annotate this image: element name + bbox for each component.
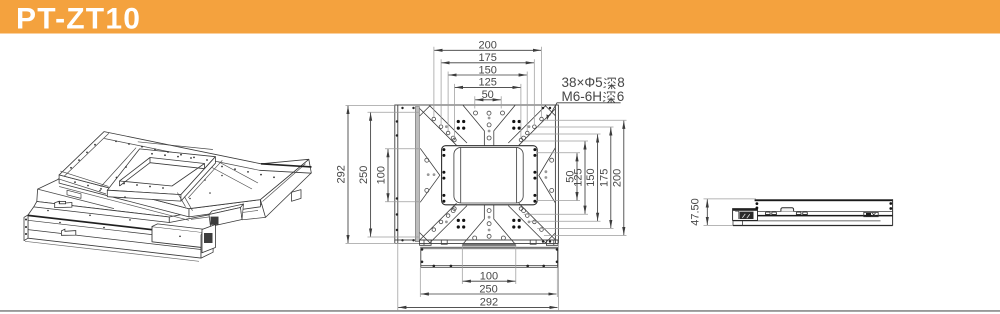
svg-text:200: 200 xyxy=(611,169,623,187)
NW diagonal rib xyxy=(420,106,467,146)
plate lower bottom edge xyxy=(395,242,559,244)
east triangle holes xyxy=(550,158,554,192)
iso bottom stage left cap xyxy=(24,215,28,241)
svg-text:100: 100 xyxy=(480,271,498,283)
iso bottom stage step block xyxy=(152,227,202,248)
svg-text:175: 175 xyxy=(479,52,497,64)
west triangle rib xyxy=(420,148,440,202)
iso top face rib bands xyxy=(58,162,258,211)
platform inner verticals xyxy=(461,148,517,203)
dim 100 bottom xyxy=(463,280,516,282)
dimension texts xyxy=(336,40,702,309)
diagonal holes NE xyxy=(540,117,544,121)
svg-text:250: 250 xyxy=(358,166,370,184)
iso right rail dark band xyxy=(261,164,312,167)
iso bottom stage right end cap xyxy=(201,229,213,258)
svg-text:150: 150 xyxy=(585,168,597,186)
svg-text:100: 100 xyxy=(376,166,388,184)
diagonal holes SW xyxy=(432,228,436,232)
svg-text:38×Φ5: 38×Φ5 xyxy=(562,75,603,90)
side view bump tab xyxy=(781,208,794,212)
side view screw detail xyxy=(864,212,878,216)
bottom page rule xyxy=(0,310,1000,312)
central platform outer xyxy=(442,146,538,205)
iso middle stage shadow line xyxy=(38,189,114,209)
left foot xyxy=(420,240,432,245)
annotation leader xyxy=(550,103,621,116)
extension lines gray xyxy=(346,47,757,310)
svg-text:150: 150 xyxy=(479,64,497,76)
iso plate under-edge chamfer lines xyxy=(59,164,305,221)
side view bottom slab xyxy=(733,211,893,225)
dim 250 left xyxy=(370,113,372,237)
iso middle stage front-right face xyxy=(169,198,265,223)
svg-text:M6-6H: M6-6H xyxy=(562,89,603,104)
diagonal holes SE xyxy=(540,228,544,232)
north rib holes xyxy=(451,111,525,140)
svg-text:125: 125 xyxy=(479,77,497,89)
SW diagonal rib xyxy=(420,203,467,243)
iso top plate front-right face xyxy=(189,200,260,217)
base top gray band xyxy=(421,247,558,249)
iso crown hole xyxy=(120,158,205,187)
plate right inner edge xyxy=(554,105,556,243)
east triangle rib xyxy=(539,148,556,203)
dim 175 top xyxy=(442,62,534,64)
svg-text:6: 6 xyxy=(617,89,625,104)
side view mid thick rail xyxy=(758,215,893,217)
dim 50 right xyxy=(576,153,578,200)
iso crown hole inner walls xyxy=(120,158,205,187)
dim 150 right xyxy=(597,134,599,221)
side view left mechanism block xyxy=(733,209,758,221)
dim 292 left xyxy=(347,106,349,243)
dim 50 top xyxy=(475,99,501,101)
svg-text:47.50: 47.50 xyxy=(689,198,701,226)
dim 250 bottom xyxy=(421,293,557,295)
base plate (bottom stage) xyxy=(421,247,558,267)
svg-text:8: 8 xyxy=(617,75,625,90)
iso left tabs xyxy=(55,201,76,235)
iso middle stage top face xyxy=(37,150,265,217)
annotation 38x5 xyxy=(562,75,625,104)
dim 125 right xyxy=(584,141,586,213)
trapezoid gray bar xyxy=(463,244,516,246)
orange title bar xyxy=(0,0,1000,34)
right foot xyxy=(546,240,558,245)
svg-text:292: 292 xyxy=(336,165,348,183)
svg-text:250: 250 xyxy=(479,283,497,295)
iso middle stage front-left face xyxy=(34,202,170,223)
iso bottom stage face grooves xyxy=(28,216,152,230)
diagonal holes NW xyxy=(432,117,543,231)
iso crown ring outer band xyxy=(107,149,215,195)
iso top plate top face xyxy=(59,132,309,209)
svg-text:PT-ZT10: PT-ZT10 xyxy=(16,2,141,35)
dim 100 left xyxy=(387,149,389,201)
middle small steps xyxy=(441,240,447,244)
south trapezoid rib xyxy=(463,205,516,244)
dimension lines with arrows xyxy=(348,50,707,307)
gray dots near diagonals xyxy=(445,125,530,223)
top view main plate outline xyxy=(395,105,559,243)
svg-text:125: 125 xyxy=(573,168,585,186)
side view top plate thick line xyxy=(755,199,893,201)
svg-text:292: 292 xyxy=(480,297,498,309)
edge hole dots xyxy=(396,107,559,267)
svg-text:175: 175 xyxy=(598,169,610,187)
left gray band (upper stage edge) xyxy=(415,107,419,242)
dim 292 bottom xyxy=(398,306,557,308)
2x2 hole clusters xyxy=(457,120,521,229)
dim 125 top xyxy=(455,86,521,88)
west triangle holes xyxy=(425,158,429,192)
platform mounting dots xyxy=(442,148,536,203)
dim 150 top xyxy=(449,74,527,76)
SE diagonal rib xyxy=(508,203,555,243)
iso crown front-right wall xyxy=(181,157,216,201)
iso bottom cap dots xyxy=(25,210,181,237)
iso plate front face tab xyxy=(67,190,81,198)
dim 47.50 side xyxy=(706,199,708,225)
iso crown front-left wall xyxy=(107,190,181,201)
NE diagonal rib xyxy=(508,106,555,146)
central platform inner contour xyxy=(454,147,523,203)
iso bottom stage top sliver xyxy=(28,207,34,215)
iso top plate front-left face xyxy=(59,175,189,217)
iso bottom stage front face xyxy=(28,215,201,258)
iso right flange xyxy=(292,190,302,202)
dim 200 top xyxy=(434,49,541,51)
iso plate edge inset lines xyxy=(64,133,260,176)
svg-text:50: 50 xyxy=(482,89,494,101)
side view small blocks xyxy=(766,212,771,214)
iso connector block xyxy=(202,225,215,253)
svg-text:200: 200 xyxy=(479,40,497,52)
iso crown rib flank lines xyxy=(101,142,223,198)
iso bottom chamfer line xyxy=(25,241,199,261)
dim 200 right xyxy=(623,121,625,235)
iso switch block xyxy=(209,204,244,215)
dim 175 right xyxy=(610,127,612,228)
north trapezoid rib xyxy=(463,105,515,145)
side view right edge xyxy=(892,199,894,225)
iso plate NE corner bevel face xyxy=(260,159,311,217)
south rib holes xyxy=(451,209,525,240)
side view dots xyxy=(756,202,893,210)
plate left inner edge xyxy=(397,105,399,243)
iso top face hole dots xyxy=(70,140,275,199)
